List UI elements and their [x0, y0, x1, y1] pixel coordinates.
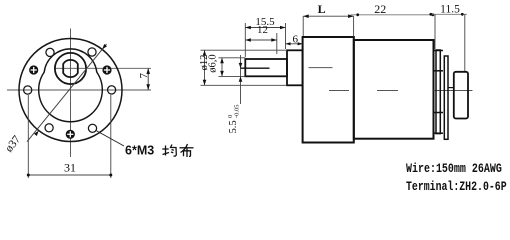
- end cap tab 1: [434, 50, 444, 52]
- end cap plate: [436, 50, 440, 134]
- motor centerline dash: [377, 90, 398, 92]
- dimension ø12: [199, 50, 287, 85]
- shaft flat line: [240, 67, 270, 69]
- mounting hole 4 (180deg): [24, 86, 32, 94]
- svg-text:7: 7: [138, 72, 150, 78]
- svg-text:6*M3: 6*M3: [125, 144, 154, 158]
- svg-text:11.5: 11.5: [440, 3, 460, 15]
- collar boss ø12: [287, 50, 303, 85]
- svg-text:31: 31: [64, 161, 76, 175]
- dimension 5.5 with tolerance: [227, 55, 242, 134]
- dimension ø37 diagonal: [3, 44, 107, 155]
- terminal spec text: [406, 181, 507, 194]
- mounting hole 2 (60deg): [88, 48, 96, 56]
- dimension 22: [351, 2, 436, 49]
- end cap tab 2: [434, 70, 444, 72]
- case screw A: [29, 65, 38, 74]
- output shaft: [245, 59, 287, 76]
- mounting hole 5 (240deg): [45, 124, 53, 132]
- svg-text:12: 12: [257, 24, 268, 36]
- mounting hole 3 (120deg): [46, 48, 54, 56]
- connector ZH2.0-6P: [454, 72, 468, 119]
- vertical centerline: [70, 29, 72, 158]
- dimension L: [303, 2, 353, 36]
- dimension 12: [245, 24, 276, 54]
- svg-text:-0.05: -0.05: [234, 104, 241, 118]
- glyph bu (布): [180, 144, 194, 157]
- motor axis at terminal end: [434, 90, 473, 92]
- dimension 6: [286, 34, 303, 46]
- svg-text:ø6,0: ø6,0: [208, 54, 219, 72]
- gearbox output centerline: [309, 67, 333, 69]
- dimension 31: [27, 95, 113, 178]
- wire spec text: [406, 163, 502, 176]
- end cap tab 3: [434, 112, 444, 114]
- case screw C: [66, 130, 75, 139]
- mounting hole 6 (300deg): [88, 124, 96, 132]
- svg-text:22: 22: [374, 2, 386, 16]
- svg-text:Wire:150mm 26AWG: Wire:150mm 26AWG: [406, 163, 502, 176]
- leader 6*M3: [96, 131, 124, 147]
- dimension ø6,0: [208, 54, 246, 76]
- connector pin line: [448, 87, 454, 89]
- dimension 15.5: [245, 16, 285, 57]
- outer circle ø37: [19, 39, 122, 142]
- svg-text:6: 6: [292, 34, 298, 46]
- crescent housing feature: [39, 49, 103, 122]
- case screw B: [102, 65, 111, 74]
- shaft boss circle: [55, 53, 86, 84]
- horizontal main centerline (motor axis): [7, 89, 151, 91]
- end cap tab 4: [434, 132, 444, 134]
- svg-text:5.5: 5.5: [228, 120, 239, 133]
- output shaft with double flats: [63, 60, 78, 77]
- svg-text:L: L: [318, 2, 326, 16]
- dimension 11.5: [429, 3, 467, 71]
- mounting hole 1 (0deg): [108, 86, 116, 94]
- motor centerline dash in gearbox: [329, 90, 349, 92]
- terminal plate: [444, 56, 448, 139]
- gearbox body (L): [303, 37, 354, 143]
- glyph jun (均): [162, 145, 176, 157]
- output shaft centerline (offset 7): [54, 67, 151, 69]
- motor body (22): [354, 40, 434, 139]
- dimension 7: [138, 68, 150, 90]
- svg-text:Terminal:ZH2.0-6P: Terminal:ZH2.0-6P: [406, 181, 507, 193]
